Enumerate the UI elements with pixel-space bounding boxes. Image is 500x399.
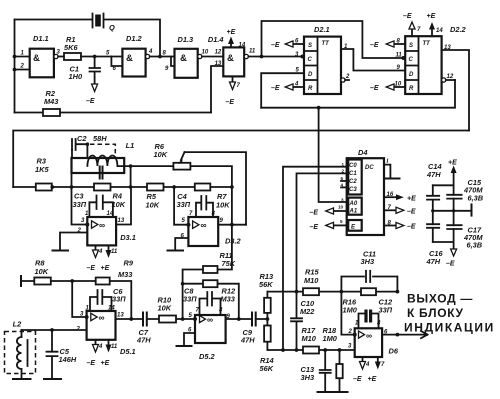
op-amp D5.2 (188, 313, 231, 361)
resistor R2 (15, 89, 212, 116)
svg-text:4: 4 (148, 49, 153, 55)
svg-text:+E: +E (101, 360, 110, 367)
ground bar D5.2 (177, 345, 192, 347)
wire R12 left vertical (182, 284, 184, 319)
output arrow (397, 331, 427, 338)
svg-text:47H: 47H (426, 257, 441, 266)
svg-text:75K: 75K (222, 259, 236, 268)
svg-text:D3.1: D3.1 (120, 233, 136, 242)
svg-text:L2: L2 (13, 320, 23, 329)
svg-text:–E: –E (271, 42, 280, 49)
wire cap block bottom (433, 241, 454, 243)
ground bar C5 (44, 378, 61, 380)
input terminal (20, 276, 22, 286)
capacitor C16 (426, 224, 444, 266)
ground -E arrow below C1 (86, 84, 98, 105)
svg-text:+E: +E (101, 265, 110, 272)
svg-text:D3.2: D3.2 (225, 237, 242, 246)
svg-text:M22: M22 (300, 307, 315, 316)
wire D3.1 input drop (72, 187, 88, 225)
svg-text:S: S (409, 43, 413, 49)
svg-text:12: 12 (447, 74, 454, 80)
capacitor C1 (69, 57, 101, 85)
node R3 out (50, 185, 54, 189)
svg-text:D1.2: D1.2 (126, 34, 143, 43)
svg-text:C: C (409, 57, 414, 63)
svg-text:–E: –E (407, 224, 416, 231)
-E +E arrows below D6 (353, 357, 385, 383)
-E arrow S pin8 D2.2 (370, 39, 405, 50)
resistor R3 (35, 157, 52, 191)
svg-text:10: 10 (202, 50, 209, 56)
gate D1.1 (20, 34, 61, 77)
node R18 tap (338, 348, 342, 352)
svg-text:16: 16 (387, 192, 394, 198)
node C13 tap (323, 348, 327, 352)
+E arrow pin14 of D1.4 (227, 29, 246, 49)
svg-text:3H3: 3H3 (301, 373, 315, 382)
resistor R14 (260, 319, 274, 373)
op-amp D3.2 (181, 217, 242, 246)
capacitor C5 (47, 330, 77, 379)
pin12 bubble D2.2 (442, 74, 455, 82)
svg-text:6: 6 (341, 176, 344, 181)
-E +E arrows below D5.1 (87, 340, 118, 367)
gate D1.4 (208, 35, 256, 76)
svg-text:2: 2 (342, 169, 345, 174)
svg-text:47H: 47H (136, 336, 151, 345)
-E arrow S pin6 D2.1 (271, 39, 304, 50)
node C11 left (340, 290, 344, 294)
-E arrow A1 pin10 D4 (310, 205, 347, 217)
wire D1.4 out to D2.1 C (248, 56, 304, 58)
svg-text:M33: M33 (221, 295, 236, 304)
svg-text:C1: C1 (349, 171, 357, 177)
wire D5.1 pin2 row to L2 C5 (22, 329, 87, 331)
svg-text:1M0: 1M0 (343, 306, 358, 315)
wire pin13 feedback (211, 66, 223, 113)
svg-text:14: 14 (239, 43, 246, 49)
wire bottom feedback (261, 80, 455, 108)
wire filter main row (13, 186, 232, 188)
svg-text:D4: D4 (358, 148, 367, 157)
svg-text:33П: 33П (112, 295, 126, 304)
node C10 top (295, 290, 299, 294)
svg-text:ИНДИКАЦИИ: ИНДИКАЦИИ (404, 321, 495, 335)
svg-text:+E: +E (368, 376, 377, 383)
node main row right (230, 185, 234, 189)
wire pin2 (15, 69, 30, 71)
svg-text:5: 5 (340, 219, 343, 224)
svg-text:C2: C2 (77, 134, 87, 143)
svg-text:A0: A0 (349, 201, 358, 207)
trimmer R6 (154, 142, 247, 225)
resistor R11 (203, 251, 236, 273)
svg-text:10K: 10K (154, 150, 168, 159)
svg-text:M10: M10 (302, 334, 317, 343)
svg-text:&: & (126, 53, 133, 64)
crystal Q (93, 14, 116, 33)
svg-text:К БЛОКУ: К БЛОКУ (407, 306, 464, 320)
svg-text:146H: 146H (59, 355, 77, 364)
svg-text:∞: ∞ (207, 315, 213, 325)
gate D1.3 (163, 35, 209, 78)
wire lower signal row (116, 318, 268, 320)
svg-text:1H0: 1H0 (69, 72, 83, 81)
svg-text:10: 10 (395, 82, 402, 88)
svg-text:4: 4 (98, 249, 103, 255)
svg-text:1: 1 (342, 162, 345, 167)
pin stub C3 (341, 186, 347, 188)
node C pin3 D2.1 (301, 55, 305, 59)
wire D5.2 pin6 ground (184, 333, 195, 346)
resistor R12 (203, 280, 236, 303)
-E arrow pin8 D4 (384, 221, 416, 231)
svg-text:–E: –E (87, 265, 96, 272)
node A0 tap (317, 106, 321, 110)
svg-text:2: 2 (345, 74, 350, 80)
ground bar R18 (334, 391, 348, 393)
svg-text:–E: –E (446, 261, 455, 268)
svg-text:13: 13 (117, 313, 124, 319)
node clock tap (260, 55, 264, 59)
capacitor C12 jumper (355, 298, 393, 329)
op-amp D3.1 (77, 217, 136, 245)
svg-text:C3: C3 (349, 187, 357, 193)
svg-text:4: 4 (365, 362, 370, 368)
svg-text:–E: –E (353, 376, 362, 383)
svg-text:ВЫХОД —: ВЫХОД — (407, 292, 473, 306)
svg-text:D2.2: D2.2 (450, 25, 467, 34)
wire D6 output (382, 334, 397, 336)
svg-text:–E: –E (87, 360, 96, 367)
-E arrow pin7 of D1.4 (226, 76, 241, 106)
svg-text:3: 3 (341, 198, 344, 203)
svg-text:33П: 33П (73, 200, 87, 209)
ground bar L2 (13, 378, 31, 380)
svg-text:56K: 56K (260, 364, 274, 373)
node output (396, 333, 400, 337)
ground bar D3.1 (53, 250, 69, 252)
wire D6 pin2 drop (341, 292, 354, 335)
wire D input D2.1 (261, 73, 304, 108)
node C11 right (396, 290, 400, 294)
wire D1.3 out to D1.4 (202, 56, 223, 58)
svg-text:M43: M43 (44, 97, 59, 106)
node R6 left (129, 164, 133, 168)
svg-text:DC: DC (365, 165, 374, 171)
capacitor C3 jumper (73, 192, 114, 218)
svg-text:M33: M33 (118, 270, 133, 279)
svg-text:+E: +E (407, 196, 416, 203)
output text (404, 292, 495, 335)
svg-text:47H: 47H (426, 170, 441, 179)
svg-text:L1: L1 (126, 141, 135, 150)
resistor R15 (303, 268, 319, 296)
svg-text:33П: 33П (177, 200, 191, 209)
wire C1 input (297, 173, 347, 291)
svg-text:3H3: 3H3 (361, 257, 375, 266)
op-amp D6 (348, 328, 399, 357)
resistor R8 (34, 259, 51, 285)
flip-flop D2.2 (405, 25, 466, 94)
pin stub C2 (341, 180, 347, 182)
node C5 tap (50, 328, 54, 332)
wire R11 loop (183, 225, 232, 284)
-E arrow pin7 D4 (384, 205, 416, 216)
ground bar C13 (318, 391, 333, 393)
svg-text:–E: –E (370, 85, 379, 92)
wire long feedback rail to filter (13, 131, 469, 188)
svg-text:5K6: 5K6 (64, 43, 78, 52)
svg-text:33П: 33П (379, 306, 393, 315)
svg-text:6,3В: 6,3В (468, 194, 484, 203)
node D5.1 input tap (70, 279, 74, 283)
pin2 bubble D2.1 (341, 74, 350, 82)
inductor L1 (72, 141, 135, 179)
svg-text:D5.1: D5.1 (120, 347, 136, 356)
svg-text:10K: 10K (112, 200, 126, 209)
-E +E arrows below D3.1 (87, 245, 118, 272)
capacitor C17 (447, 225, 483, 249)
resistor R10 (158, 296, 177, 323)
svg-text:11: 11 (111, 249, 118, 255)
wire Q pin1 D2.1 to D pin9 D2.2 (341, 49, 405, 71)
svg-text:10K: 10K (35, 267, 49, 276)
wire Q pin13 D2.2 down right side (442, 50, 469, 131)
svg-text:–E: –E (407, 209, 416, 216)
+E arrow pin14 top D2.2 (427, 13, 444, 36)
svg-text:11: 11 (396, 53, 403, 59)
wire lower rail (267, 349, 354, 351)
node C1 (93, 55, 97, 59)
node R9 drop (129, 317, 133, 321)
wire left input vertical (14, 20, 16, 113)
svg-text:–E: –E (370, 42, 379, 49)
wire D1.1 out (58, 56, 64, 58)
wire D3.2 pin6 ground (175, 238, 188, 250)
capacitor C8 jumper (183, 287, 223, 316)
resistor R18 (323, 326, 343, 392)
svg-text:10K: 10K (146, 201, 160, 210)
svg-text:–E: –E (310, 224, 319, 231)
wire R6 left drop (130, 166, 132, 187)
wire clock top link (262, 21, 406, 58)
node crystal junction (158, 55, 162, 59)
resistor R7 (195, 184, 230, 210)
wire tank left to row (71, 173, 73, 187)
capacitor C2 (72, 134, 115, 158)
-E arrow R pin10 D2.2 (370, 82, 405, 93)
svg-text:D: D (308, 72, 313, 78)
svg-text:C: C (308, 57, 313, 63)
gate D1.2 (106, 34, 153, 77)
-E arrow pin7 top D2.2 (403, 13, 421, 36)
svg-text:A1: A1 (349, 209, 358, 215)
svg-text:–E: –E (226, 99, 235, 106)
wire C0 input (283, 167, 347, 350)
node D5.2 output tap (237, 317, 241, 321)
capacitor C9 (240, 313, 256, 345)
resistor R9 (96, 259, 134, 285)
svg-text:∞: ∞ (366, 330, 372, 340)
wire D3.1 output up (116, 187, 131, 225)
svg-text:D6: D6 (389, 347, 399, 356)
svg-text:56K: 56K (259, 280, 273, 289)
wire D1.2 out (150, 56, 175, 58)
svg-text:+E: +E (227, 29, 236, 36)
node R13 R14 junction (266, 317, 270, 321)
svg-text:2: 2 (348, 329, 353, 335)
resistor R16 (343, 288, 377, 314)
wire pin1 (15, 56, 30, 58)
wire A0 drop (319, 108, 347, 202)
svg-text:C2: C2 (349, 179, 357, 185)
flip-flop D2.1 (304, 25, 341, 94)
wire upper feedback row (267, 291, 397, 293)
node C pin11 D2.2 (402, 56, 406, 60)
svg-text:11: 11 (249, 49, 256, 55)
svg-text:4: 4 (341, 183, 344, 188)
ground bar D3.2 (168, 250, 184, 252)
capacitor C4 jumper (177, 192, 216, 217)
capacitor C14 (426, 162, 442, 224)
svg-text:13: 13 (444, 45, 451, 51)
resistor R5 (146, 184, 164, 210)
svg-text:D1.4: D1.4 (208, 35, 224, 44)
wire D5.1 input drop (72, 281, 86, 317)
svg-text:S: S (308, 43, 312, 49)
svg-text:–E: –E (310, 210, 319, 217)
svg-text:R: R (308, 86, 313, 92)
pin I terminator top right of D4 (384, 159, 400, 179)
svg-text:10K: 10K (158, 304, 172, 313)
op-amp D5.1 (76, 311, 136, 356)
decoder D4 (347, 148, 384, 235)
svg-text:1K5: 1K5 (35, 165, 49, 174)
wire R12 row (183, 284, 239, 319)
svg-text:10K: 10K (216, 201, 230, 210)
wire D3.1 pin2 ground (60, 233, 87, 251)
wire R1 to D1.2 (81, 56, 122, 58)
svg-text:D: D (409, 72, 414, 78)
svg-text:+E: +E (448, 160, 457, 167)
svg-text:&: & (227, 53, 234, 64)
resistor R17 (302, 326, 320, 354)
svg-text:&: & (180, 53, 187, 64)
svg-text:13: 13 (118, 218, 125, 224)
svg-text:–E: –E (86, 98, 95, 105)
svg-text:4: 4 (294, 82, 299, 88)
wire D3.2 output row (218, 224, 246, 226)
svg-text:58H: 58H (93, 134, 107, 143)
svg-text:Q: Q (109, 23, 115, 32)
svg-text:∞: ∞ (99, 313, 105, 323)
svg-text:4: 4 (98, 344, 103, 350)
svg-text:13: 13 (215, 61, 222, 67)
wire cap block top (433, 184, 454, 186)
capacitor C13 (301, 350, 331, 392)
capacitor C7 (136, 313, 151, 345)
svg-text:1M0: 1M0 (323, 334, 338, 343)
wire tank right to trimmer (117, 166, 231, 225)
svg-text:∞: ∞ (99, 220, 105, 230)
svg-text:6,3В: 6,3В (467, 241, 483, 250)
node D5.2 input tap (181, 317, 185, 321)
+E arrow pin16 D4 (384, 192, 416, 203)
resistor R13 (259, 272, 274, 319)
svg-text:–E: –E (403, 13, 412, 20)
svg-text:R: R (409, 86, 414, 92)
wire top oscillator loop (15, 20, 161, 57)
svg-text:R9: R9 (124, 259, 134, 268)
capacitor C6 jumper (86, 287, 127, 312)
svg-text:D5.2: D5.2 (199, 352, 216, 361)
svg-text:∞: ∞ (201, 220, 207, 230)
svg-text:–E: –E (271, 85, 280, 92)
node pin1 (13, 55, 17, 59)
node pin2 (13, 68, 17, 72)
svg-text:&: & (33, 53, 40, 64)
svg-text:+E: +E (427, 13, 436, 20)
svg-text:2: 2 (20, 64, 25, 70)
-E arrow E pin D4 (310, 219, 347, 231)
capacitor C11 jumper (341, 250, 397, 292)
wire cap mid tap (431, 204, 471, 215)
+E rail of supply capacitors (446, 160, 457, 268)
svg-text:12: 12 (215, 50, 222, 56)
inductor L2 (5, 320, 36, 379)
svg-text:D1.3: D1.3 (178, 35, 195, 44)
capacitor C10 (291, 292, 315, 350)
resistor R1 (64, 35, 81, 60)
wire D3.2 input drop (174, 187, 188, 225)
svg-text:33П: 33П (183, 295, 197, 304)
svg-text:C0: C0 (349, 163, 357, 169)
svg-text:10: 10 (338, 205, 344, 210)
wire input row (21, 281, 131, 319)
svg-text:47H: 47H (240, 336, 255, 345)
svg-text:D2.1: D2.1 (314, 25, 330, 34)
capacitor C15 (447, 178, 484, 203)
-E arrow R pin4 D2.1 (271, 82, 304, 93)
svg-text:14: 14 (436, 28, 443, 34)
svg-text:11: 11 (111, 344, 118, 350)
svg-text:M10: M10 (304, 276, 319, 285)
svg-text:D1.1: D1.1 (33, 34, 49, 43)
resistor R4 (94, 184, 126, 210)
